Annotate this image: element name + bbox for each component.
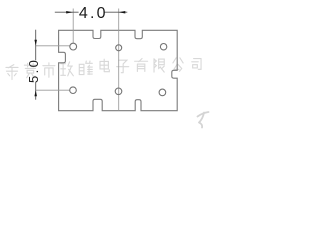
- hole H6: [159, 89, 166, 96]
- ext line to H4 (5.0 bottom): [36, 89, 70, 91]
- watermark char 有: [135, 58, 148, 71]
- watermark row: 东莞市玖耀电子有限公司 (drawn as stroke clusters): [6, 58, 209, 128]
- watermark char 东: [6, 65, 18, 80]
- ext line to H1 (5.0 top): [36, 45, 70, 47]
- watermark char 子: [117, 60, 129, 73]
- center line through H1 (top only): [72, 9, 74, 44]
- watermark char 司: [192, 59, 201, 70]
- arrow left at x=118.6: [119, 11, 126, 14]
- hole H3: [160, 44, 166, 50]
- svg-text:4.0: 4.0: [79, 5, 108, 22]
- center line through H2/H5: [118, 9, 120, 111]
- watermark char 耀: [79, 61, 92, 74]
- hole H2: [116, 45, 122, 51]
- watermark char 莞: [24, 63, 36, 77]
- hole H5: [115, 88, 122, 95]
- hole H1: [70, 43, 77, 50]
- watermark char 玖: [61, 62, 74, 76]
- dimension line 5.0 (vertical): [35, 30, 37, 61]
- arrow down at y=45.6: [34, 40, 37, 46]
- watermark partial glyph bottom-right: [198, 112, 209, 128]
- watermark char 市: [43, 63, 55, 77]
- svg-text:5.0: 5.0: [26, 58, 41, 83]
- dimension line 4.0 (horizontal): [55, 11, 79, 13]
- watermark char 电: [100, 59, 109, 72]
- plate outline: [59, 30, 178, 110]
- hole H4: [70, 87, 77, 94]
- arrow up at y=90.3: [34, 90, 37, 96]
- watermark char 限: [154, 59, 164, 72]
- watermark char 公: [173, 58, 183, 71]
- arrow right at x=72.9: [66, 11, 73, 14]
